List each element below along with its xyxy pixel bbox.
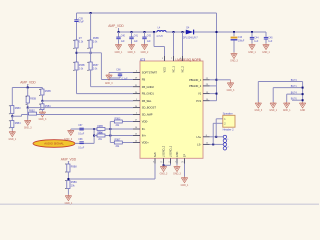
svg-text:LSGND_1: LSGND_1 — [170, 145, 173, 157]
svg-text:NC_2: NC_2 — [182, 65, 185, 72]
svg-text:GND: GND — [176, 151, 179, 157]
svg-text:GND_3: GND_3 — [254, 110, 262, 112]
svg-text:Header 2: Header 2 — [223, 128, 235, 132]
svg-text:AMP_VDD: AMP_VDD — [108, 24, 124, 28]
svg-text:GND_3: GND_3 — [24, 128, 32, 130]
svg-text:1uF: 1uF — [147, 41, 152, 43]
svg-text:1uF: 1uF — [254, 41, 259, 43]
svg-text:SOFTSTART: SOFTSTART — [142, 71, 158, 75]
svg-text:LSGND_2: LSGND_2 — [163, 145, 166, 157]
svg-text:0.1uF: 0.1uF — [78, 134, 85, 136]
svg-text:VDD+: VDD+ — [142, 141, 149, 145]
svg-text:PV1: PV1 — [196, 99, 201, 103]
svg-text:C67: C67 — [78, 125, 83, 127]
svg-text:FB_GND2: FB_GND2 — [142, 85, 155, 89]
svg-text:GND_3: GND_3 — [160, 174, 168, 176]
svg-text:FB: FB — [142, 78, 146, 82]
svg-text:C43: C43 — [238, 37, 243, 39]
svg-text:SuB: SuB — [154, 152, 157, 157]
svg-text:AMP_VDD: AMP_VDD — [20, 80, 36, 84]
svg-text:FB_GND1: FB_GND1 — [142, 92, 155, 96]
svg-text:R95B: R95B — [93, 38, 99, 40]
svg-text:GND_2: GND_2 — [141, 52, 149, 54]
svg-text:GND_1: GND_1 — [8, 139, 16, 141]
svg-text:VDD: VDD — [164, 67, 167, 72]
svg-text:0.1uF: 0.1uF — [78, 148, 85, 150]
svg-text:AUDIO SIGNAL: AUDIO SIGNAL — [44, 142, 64, 146]
svg-text:BU74: BU74 — [291, 93, 298, 95]
svg-text:100uF: 100uF — [238, 40, 245, 42]
svg-text:R9B4: R9B4 — [15, 123, 22, 125]
svg-text:AMP_VDD: AMP_VDD — [61, 157, 77, 161]
svg-text:FB_SEL: FB_SEL — [142, 99, 152, 103]
svg-text:GND_1: GND_1 — [65, 203, 73, 205]
svg-text:R95B: R95B — [30, 99, 36, 101]
svg-text:R9B6: R9B6 — [97, 132, 103, 134]
svg-text:LS+: LS+ — [197, 135, 202, 139]
svg-text:R957: R957 — [93, 65, 99, 67]
svg-text:C39: C39 — [79, 18, 84, 20]
svg-text:GND_3: GND_3 — [230, 61, 238, 63]
svg-text:GND_1: GND_1 — [269, 110, 277, 112]
svg-text:1uF: 1uF — [134, 41, 139, 43]
svg-text:LS-: LS- — [197, 143, 201, 147]
svg-text:R9B0: R9B0 — [15, 108, 22, 110]
svg-text:GND_3: GND_3 — [128, 52, 136, 54]
svg-text:GND_3: GND_3 — [39, 119, 47, 121]
svg-text:1uF: 1uF — [121, 41, 126, 43]
svg-text:R9B9: R9B9 — [71, 182, 78, 184]
svg-text:BU71: BU71 — [291, 86, 298, 88]
svg-text:R9B5: R9B5 — [97, 126, 103, 128]
svg-text:SD_BOOST: SD_BOOST — [142, 106, 157, 110]
svg-text:SD_AMP: SD_AMP — [142, 113, 153, 117]
svg-text:GND: GND — [300, 110, 305, 112]
svg-text:C41: C41 — [134, 36, 139, 38]
svg-text:GND_1: GND_1 — [248, 52, 256, 54]
svg-text:R9B7: R9B7 — [115, 139, 121, 141]
svg-text:R9B3: R9B3 — [115, 118, 121, 120]
svg-text:C68: C68 — [78, 139, 83, 141]
svg-text:R9B8: R9B8 — [71, 166, 78, 168]
svg-text:NC_1: NC_1 — [173, 65, 176, 72]
svg-text:BU76: BU76 — [291, 99, 298, 101]
svg-text:27pF: 27pF — [79, 22, 85, 24]
svg-text:1uF: 1uF — [268, 41, 273, 43]
svg-text:R95B: R95B — [79, 65, 85, 67]
svg-text:C40: C40 — [121, 36, 126, 38]
svg-text:V1: V1 — [198, 92, 202, 96]
svg-text:EP: EP — [184, 154, 187, 158]
svg-text:GND_1: GND_1 — [262, 52, 270, 54]
svg-text:IN+: IN+ — [142, 134, 147, 138]
svg-text:DFLS240LR-7: DFLS240LR-7 — [183, 37, 198, 39]
svg-text:IC3: IC3 — [140, 58, 145, 62]
svg-text:Speaker: Speaker — [223, 111, 233, 115]
svg-text:C42: C42 — [147, 36, 152, 38]
svg-text:GND_3: GND_3 — [64, 138, 73, 141]
svg-text:VDD-: VDD- — [142, 120, 148, 124]
svg-text:BU73: BU73 — [291, 80, 298, 82]
svg-text:GND_1: GND_1 — [115, 52, 123, 54]
svg-text:PBGND_2: PBGND_2 — [189, 84, 202, 88]
svg-text:C44: C44 — [254, 37, 259, 39]
svg-text:GND_3: GND_3 — [173, 174, 181, 176]
svg-text:PBGND_1: PBGND_1 — [189, 78, 202, 82]
svg-text:4.7uH: 4.7uH — [156, 36, 162, 38]
svg-text:0.1uF: 0.1uF — [122, 79, 128, 81]
svg-text:C66: C66 — [116, 69, 121, 71]
svg-text:R9B2: R9B2 — [29, 111, 35, 113]
svg-text:GND_3: GND_3 — [105, 83, 113, 85]
svg-text:IN-: IN- — [142, 127, 146, 131]
svg-text:GND_3: GND_3 — [227, 90, 235, 92]
svg-text:R95B: R95B — [45, 91, 51, 93]
svg-text:GND_1: GND_1 — [181, 185, 189, 187]
svg-text:C45: C45 — [268, 37, 273, 39]
svg-text:GND_1: GND_1 — [283, 110, 291, 112]
